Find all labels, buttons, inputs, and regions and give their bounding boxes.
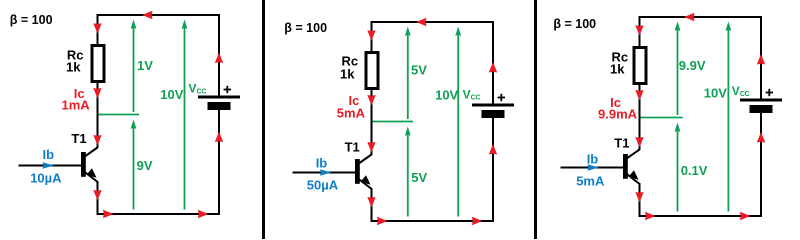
voltage arrow 10V (supply), panel 1 <box>182 20 188 210</box>
node collector-level tick (green), panel 1 <box>99 114 140 116</box>
wire emitter to bottom, panel 2 <box>371 188 373 222</box>
svg-text:5V: 5V <box>411 170 427 185</box>
current arrow above battery (up), panel 2 <box>489 62 497 73</box>
battery Vcc 10V, panel 1 <box>198 96 240 111</box>
wire emitter to bottom, panel 1 <box>97 181 99 215</box>
current arrow above battery (up), panel 1 <box>215 53 223 64</box>
voltage arrow 1V (collector resistor drop), panel 1 <box>131 20 137 113</box>
wire bottom, panel 2 <box>371 220 495 222</box>
battery plus sign, panel 2 <box>498 94 505 101</box>
transistor T1 (NPN), panel 1 <box>81 148 98 182</box>
svg-text:10V: 10V <box>435 87 458 102</box>
wire right (top to battery +), panel 2 <box>492 22 494 105</box>
voltage arrow 9V (Vce), panel 1 <box>131 120 137 210</box>
current arrow (down) above Rc, panel 2 <box>367 30 375 41</box>
current arrow on bottom wire left (right), panel 3 <box>645 212 656 220</box>
battery Vcc 10V, panel 2 <box>472 104 514 119</box>
voltage arrow 10V (supply), panel 2 <box>455 27 461 217</box>
current arrow on collector (down), panel 1 <box>93 135 101 146</box>
battery plus sign, panel 3 <box>766 89 773 96</box>
svg-text:9V: 9V <box>137 158 153 173</box>
svg-text:T1: T1 <box>345 139 360 154</box>
voltage arrow 9.9V (collector resistor drop), panel 3 <box>675 22 681 116</box>
svg-text:β = 100: β = 100 <box>553 17 596 31</box>
svg-text:5mA: 5mA <box>576 174 605 189</box>
wire right (battery - to bottom), panel 2 <box>492 118 494 222</box>
wire bottom, panel 3 <box>639 215 763 217</box>
battery plus sign, panel 1 <box>224 86 231 93</box>
transistor T1 (NPN), panel 2 <box>355 155 372 189</box>
svg-text:9.9mA: 9.9mA <box>598 106 638 121</box>
wire base (input), panel 3 <box>561 167 624 169</box>
svg-text:β = 100: β = 100 <box>10 13 53 27</box>
svg-text:50µA: 50µA <box>307 178 339 193</box>
svg-text:1V: 1V <box>137 58 153 73</box>
wire from Rc to collector, panel 1 <box>97 81 99 148</box>
wire from Rc to collector, panel 2 <box>371 88 373 155</box>
wire emitter to bottom, panel 3 <box>639 183 641 217</box>
svg-text:Ib: Ib <box>316 156 328 171</box>
wire from Rc to collector, panel 3 <box>639 83 641 150</box>
current arrow on emitter wire (down), panel 2 <box>367 197 375 208</box>
svg-text:Ib: Ib <box>43 147 55 162</box>
svg-text:5mA: 5mA <box>337 106 366 121</box>
current arrow Ib (blue, pointing right), panel 2 <box>320 169 332 175</box>
current arrow Ib (blue, pointing right), panel 1 <box>43 162 55 168</box>
current arrow on bottom wire right (right), panel 1 <box>198 210 209 218</box>
current arrow on emitter wire (down), panel 3 <box>635 192 643 203</box>
svg-text:T1: T1 <box>71 131 86 146</box>
wire right (top to battery +), panel 3 <box>760 17 762 100</box>
current arrow on collector (down), panel 2 <box>367 142 375 153</box>
current arrow Ic on top wire (pointing left), panel 3 <box>684 13 695 21</box>
wire from top to resistor Rc, panel 2 <box>371 22 373 53</box>
wire right (top to battery +), panel 1 <box>218 15 220 97</box>
voltage arrow 0.1V (Vce), panel 3 <box>675 123 681 212</box>
current arrow on bottom wire right (right), panel 3 <box>740 212 751 220</box>
svg-text:1k: 1k <box>610 61 625 76</box>
svg-text:0.1V: 0.1V <box>681 163 708 178</box>
current arrow below battery (up), panel 3 <box>757 132 765 143</box>
svg-text:10µA: 10µA <box>30 170 62 185</box>
wire from top to resistor Rc, panel 3 <box>639 17 641 48</box>
transistor T1 (NPN), panel 3 <box>623 150 640 184</box>
svg-text:1k: 1k <box>66 60 81 75</box>
wire base (input), panel 1 <box>19 165 82 167</box>
current arrow (down) above Rc, panel 1 <box>93 23 101 34</box>
voltage arrow 5V (Vce), panel 2 <box>405 127 411 217</box>
wire top (Vcc to Rc), panel 3 <box>639 16 763 18</box>
wire right (battery - to bottom), panel 3 <box>760 113 762 217</box>
node collector-level tick (green), panel 3 <box>641 117 683 119</box>
svg-text:1mA: 1mA <box>62 98 91 113</box>
wire top (Vcc to Rc), panel 2 <box>371 21 495 23</box>
divider between panel 1 and panel 2 <box>262 0 265 239</box>
current arrow on emitter wire (down), panel 1 <box>93 190 101 201</box>
current arrow Ic on top wire (pointing left), panel 1 <box>142 11 153 19</box>
svg-text:β = 100: β = 100 <box>284 21 327 35</box>
svg-text:10V: 10V <box>160 87 183 102</box>
divider between panel 2 and panel 3 <box>534 0 537 239</box>
current arrow Ic below Rc (down), panel 3 <box>635 90 643 101</box>
current arrow below battery (up), panel 2 <box>489 144 497 155</box>
wire top (Vcc to Rc), panel 1 <box>97 14 221 16</box>
wire right (battery - to bottom), panel 1 <box>218 110 220 215</box>
current arrow Ic below Rc (down), panel 1 <box>93 88 101 99</box>
current arrow on bottom wire left (right), panel 2 <box>377 217 388 225</box>
battery Vcc 10V, panel 3 <box>740 99 782 114</box>
svg-text:5V: 5V <box>411 63 427 78</box>
current arrow on bottom wire left (right), panel 1 <box>103 210 114 218</box>
voltage arrow 10V (supply), panel 3 <box>726 22 732 212</box>
wire from top to resistor Rc, panel 1 <box>97 15 99 46</box>
voltage arrow 5V (collector resistor drop), panel 2 <box>405 27 411 120</box>
current arrow on collector (down), panel 3 <box>635 137 643 148</box>
svg-text:9.9V: 9.9V <box>679 58 706 73</box>
wire bottom, panel 1 <box>97 213 221 215</box>
resistor Rc 1k, panel 3 <box>634 48 646 84</box>
svg-text:Ib: Ib <box>587 152 599 167</box>
current arrow Ic on top wire (pointing left), panel 2 <box>416 18 427 26</box>
resistor Rc 1k, panel 2 <box>366 53 378 89</box>
current arrow below battery (up), panel 1 <box>215 132 223 143</box>
svg-text:1k: 1k <box>340 67 355 82</box>
resistor Rc 1k, panel 1 <box>92 46 104 82</box>
current arrow Ic below Rc (down), panel 2 <box>367 95 375 106</box>
svg-text:T1: T1 <box>614 136 629 151</box>
wire base (input), panel 2 <box>293 172 356 174</box>
svg-text:10V: 10V <box>704 85 727 100</box>
current arrow above battery (up), panel 3 <box>757 54 765 65</box>
current arrow Ib (blue, pointing right), panel 3 <box>588 164 600 170</box>
current arrow (down) above Rc, panel 3 <box>635 25 643 36</box>
current arrow on bottom wire right (right), panel 2 <box>472 217 483 225</box>
node collector-level tick (green), panel 2 <box>373 121 414 123</box>
